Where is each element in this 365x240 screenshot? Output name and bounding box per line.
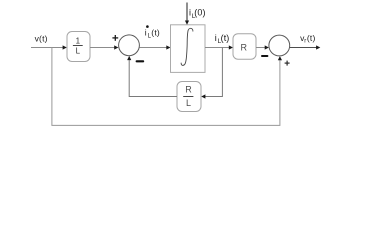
wire integrator to block R — [205, 47, 230, 49]
node label iL(t) — [215, 33, 230, 45]
svg-text:L: L — [186, 98, 191, 108]
node label iL-dot(t) — [145, 25, 160, 39]
node label iL(0) — [189, 8, 206, 20]
wire branch junction down to block R/L — [205, 48, 223, 97]
wire outer feedforward v(t) branch down, along bottom, up to summer S2 plus input — [52, 48, 280, 126]
svg-text:i: i — [189, 8, 191, 18]
wire summer S1 to integrator — [139, 47, 167, 49]
svg-text:R: R — [241, 42, 248, 52]
svg-text:1: 1 — [76, 36, 81, 45]
summing junction S1 — [119, 35, 140, 56]
node label vr(t) — [300, 33, 315, 45]
minus sign at summer S1 — [136, 60, 145, 62]
svg-text:i: i — [215, 33, 217, 43]
wire input v(t) to block 1/L — [31, 47, 64, 49]
plus sign at summer S2 — [285, 61, 290, 66]
wire block R to summer S2 — [256, 47, 266, 49]
wire block 1/L to summer S1 — [90, 47, 115, 49]
integrator block U1 — [171, 25, 206, 73]
svg-text:(t): (t) — [307, 33, 316, 43]
block G3 R/L feedback — [177, 82, 201, 112]
wire block R/L to summer S1 minus input — [129, 60, 177, 97]
svg-text:R: R — [185, 84, 192, 94]
svg-text:L: L — [76, 47, 81, 56]
block G1 1/L — [67, 32, 90, 62]
plus sign at summer S1 — [112, 35, 118, 41]
summing junction S2 — [269, 35, 290, 56]
svg-text:(t): (t) — [221, 33, 230, 43]
wire summer S2 to output vr(t) — [290, 47, 317, 49]
minus sign at summer S2 — [261, 55, 268, 57]
svg-text:(t): (t) — [151, 28, 160, 38]
wire initial condition iL(0) into integrator top — [186, 3, 188, 22]
block G2 R — [233, 34, 256, 60]
svg-text:i: i — [145, 28, 147, 38]
svg-text:(0): (0) — [194, 8, 205, 18]
svg-text:v(t): v(t) — [35, 33, 48, 43]
integral sign — [181, 28, 193, 65]
